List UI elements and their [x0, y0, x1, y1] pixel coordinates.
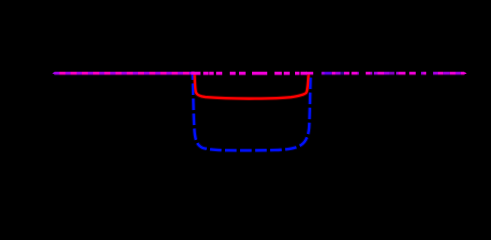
core pass: [52, 72, 467, 150]
glow pass: [52, 72, 467, 150]
